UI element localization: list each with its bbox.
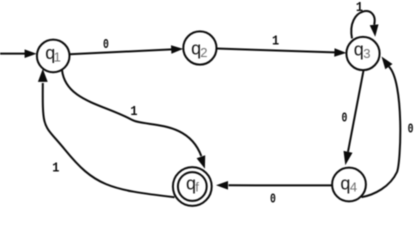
- node qf (accepting state, double circle): [173, 167, 212, 206]
- node q4: [332, 168, 366, 202]
- wire q1 to q2: [70, 45, 184, 54]
- svg-text:1: 1: [272, 33, 279, 49]
- svg-text:0: 0: [270, 191, 276, 207]
- svg-text:0: 0: [341, 110, 347, 126]
- wire q4 to q3 (right side curve): [362, 57, 401, 198]
- svg-text:f: f: [195, 179, 199, 194]
- wire q2 to q3: [217, 48, 347, 57]
- node q1: [37, 40, 70, 73]
- svg-text:1: 1: [52, 160, 59, 176]
- svg-text:0: 0: [408, 121, 414, 137]
- svg-text:1: 1: [130, 103, 137, 119]
- svg-text:1: 1: [54, 49, 61, 64]
- wire q1 to qf (upper curve): [62, 70, 205, 169]
- node q3: [346, 37, 379, 70]
- svg-text:2: 2: [200, 45, 207, 60]
- wire q3 to q4: [344, 71, 364, 166]
- svg-text:0: 0: [103, 36, 109, 52]
- wire q3 self loop: [351, 11, 378, 38]
- svg-text:4: 4: [350, 180, 357, 195]
- svg-text:1: 1: [356, 0, 363, 15]
- wire start arrow into q1: [0, 49, 37, 58]
- svg-text:3: 3: [363, 46, 370, 61]
- wire q4 to qf: [216, 181, 332, 190]
- wire qf to q1 (lower-left curve): [38, 69, 175, 197]
- node q2: [183, 31, 216, 64]
